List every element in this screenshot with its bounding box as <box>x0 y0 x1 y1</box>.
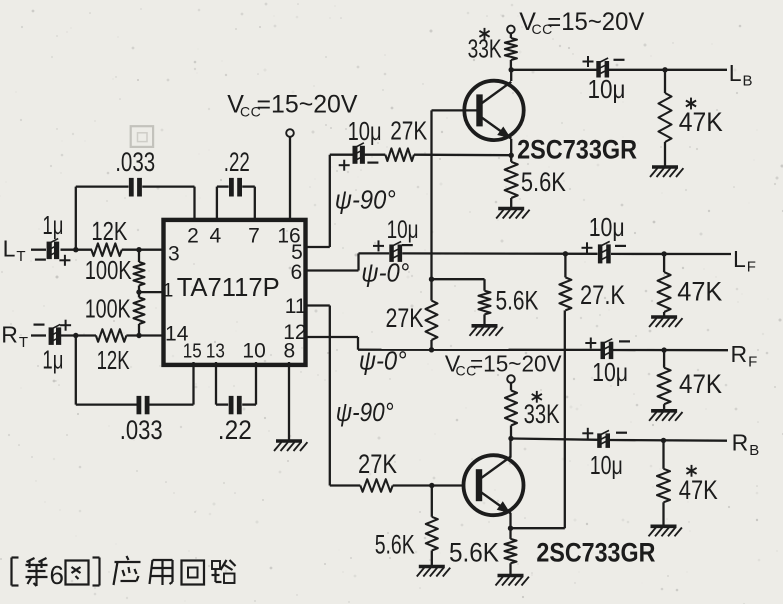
svg-text:10μ: 10μ <box>592 357 628 387</box>
svg-text:47K: 47K <box>677 276 722 306</box>
svg-text:.22: .22 <box>224 147 250 177</box>
svg-text:8: 8 <box>283 340 295 363</box>
svg-text:47K: 47K <box>679 475 718 505</box>
svg-text:ψ-90°: ψ-90° <box>336 397 394 427</box>
svg-text:12K: 12K <box>91 216 128 246</box>
svg-text:ψ-0°: ψ-0° <box>361 257 409 287</box>
svg-text:100K: 100K <box>85 293 131 323</box>
svg-text:27K: 27K <box>390 115 428 145</box>
svg-text:6: 6 <box>291 261 303 284</box>
svg-text:.033: .033 <box>120 415 163 445</box>
svg-text:4: 4 <box>210 225 222 248</box>
svg-text:1μ: 1μ <box>42 210 63 240</box>
svg-text:10μ: 10μ <box>348 116 382 146</box>
svg-text:=15~20V: =15~20V <box>547 8 644 36</box>
svg-text:12K: 12K <box>97 345 130 375</box>
svg-text:1: 1 <box>163 281 174 302</box>
svg-text:10μ: 10μ <box>590 450 623 480</box>
svg-text:27K: 27K <box>386 303 424 333</box>
svg-text:6: 6 <box>50 560 64 590</box>
svg-text:33K: 33K <box>524 399 560 429</box>
svg-text:ψ-0°: ψ-0° <box>359 345 407 375</box>
svg-text:10μ: 10μ <box>588 74 626 104</box>
svg-text:2SC733GR: 2SC733GR <box>536 538 655 568</box>
svg-text:ψ-90°: ψ-90° <box>335 185 396 215</box>
svg-text:27K: 27K <box>358 449 397 479</box>
svg-text:10μ: 10μ <box>589 212 625 242</box>
svg-text:27.K: 27.K <box>580 280 625 310</box>
svg-text:TA7117P: TA7117P <box>177 272 280 302</box>
svg-text:.033: .033 <box>115 147 155 177</box>
svg-text:.22: .22 <box>218 415 252 445</box>
svg-text:3: 3 <box>168 243 180 266</box>
svg-text:5.6K: 5.6K <box>449 538 499 568</box>
svg-text:47K: 47K <box>679 107 723 137</box>
svg-text:5.6K: 5.6K <box>496 285 539 315</box>
svg-text:47K: 47K <box>679 369 722 399</box>
svg-text:11: 11 <box>285 295 307 318</box>
svg-text:100K: 100K <box>85 255 132 285</box>
svg-text:2SC733GR: 2SC733GR <box>517 134 637 164</box>
svg-text:2: 2 <box>187 225 199 248</box>
svg-text:10μ: 10μ <box>387 216 419 244</box>
svg-text:7: 7 <box>248 225 260 248</box>
svg-text:5.6K: 5.6K <box>375 530 415 560</box>
svg-text:1μ: 1μ <box>42 344 63 374</box>
svg-text:33K: 33K <box>468 33 502 63</box>
svg-text:5.6K: 5.6K <box>521 167 566 197</box>
svg-text:=15~20V: =15~20V <box>257 91 358 119</box>
svg-text:15: 15 <box>183 341 202 363</box>
svg-text:10: 10 <box>242 340 265 363</box>
svg-text:13: 13 <box>206 341 225 363</box>
svg-text:=15~20V: =15~20V <box>470 350 562 376</box>
